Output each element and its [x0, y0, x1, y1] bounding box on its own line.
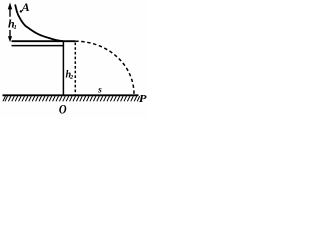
svg-text:O: O	[59, 103, 67, 117]
svg-text:s: s	[97, 84, 102, 94]
dimension arrow down (h1 lower)	[8, 30, 12, 42]
svg-text:P: P	[139, 94, 148, 105]
dimension arrow up (h1 upper)	[8, 2, 12, 16]
dashed drop height line	[74, 43, 76, 96]
svg-text:2: 2	[69, 75, 73, 81]
table edge vertical line	[62, 41, 64, 96]
slide curve from A to bench top	[15, 5, 63, 41]
bench top surface line	[12, 40, 76, 42]
ground hatching	[3, 96, 140, 101]
point A dot	[20, 10, 22, 12]
bench underside line	[12, 45, 65, 47]
ground line	[3, 94, 139, 96]
dashed projectile trajectory to P	[75, 41, 134, 94]
svg-text:A: A	[21, 0, 30, 14]
svg-text:1: 1	[14, 24, 17, 31]
